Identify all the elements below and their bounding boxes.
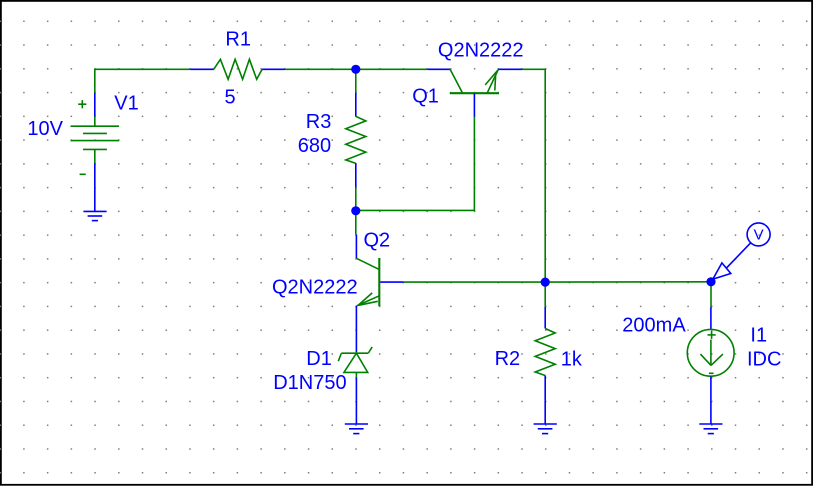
node C junction dot: [541, 278, 550, 287]
svg-text:D1: D1: [306, 348, 332, 370]
zener diode D1: [338, 330, 372, 401]
svg-text:R3: R3: [306, 111, 332, 133]
svg-text:5: 5: [225, 86, 236, 108]
ground at D1: [345, 401, 368, 434]
svg-text:200mA: 200mA: [622, 315, 686, 337]
wire R3 to node B: [355, 187, 357, 211]
node A junction dot: [351, 65, 360, 74]
svg-text:V: V: [754, 227, 764, 244]
wire V1 top to R1: [95, 69, 190, 93]
wire Q1 emitter down right side to node C: [522, 69, 545, 282]
resistor R2: [535, 307, 555, 401]
ground at R2: [534, 401, 557, 434]
wire R1 to node A: [285, 68, 356, 70]
svg-text:R2: R2: [495, 348, 521, 370]
svg-text:R1: R1: [225, 28, 251, 50]
svg-text:1k: 1k: [561, 348, 583, 370]
node D junction dot: [706, 277, 715, 286]
svg-text:V1: V1: [114, 92, 138, 114]
voltage source V1: [71, 93, 120, 188]
ground at I1: [699, 401, 722, 434]
node B junction dot: [351, 206, 360, 215]
svg-text:Q2N2222: Q2N2222: [438, 40, 524, 62]
svg-text:I1: I1: [750, 324, 767, 346]
transistor Q2: [356, 234, 403, 330]
wire node A to Q1 collector: [356, 68, 428, 70]
svg-text:Q2N2222: Q2N2222: [272, 276, 358, 298]
transistor Q1: [428, 69, 522, 116]
ground at V1: [83, 188, 106, 221]
resistor R3: [346, 93, 366, 188]
svg-text:Q2: Q2: [364, 229, 391, 251]
wire node C down to R2: [544, 282, 546, 307]
wire Q1 base down and left to node B: [356, 116, 475, 210]
wire node A down to R3: [355, 68, 357, 92]
svg-text:Q1: Q1: [412, 86, 439, 108]
current source I1: [687, 307, 734, 401]
svg-text:680: 680: [298, 135, 331, 157]
wire node D down to I1: [710, 282, 712, 307]
svg-text:10V: 10V: [27, 118, 63, 140]
wire node C to node D: [545, 281, 711, 283]
wire Q2 base to node C: [403, 281, 545, 283]
svg-text:IDC: IDC: [747, 349, 781, 371]
resistor R1: [190, 59, 285, 79]
svg-text:D1N750: D1N750: [273, 372, 346, 394]
wire node B down to Q2 collector: [355, 210, 357, 234]
voltage probe marker V: [713, 223, 770, 279]
